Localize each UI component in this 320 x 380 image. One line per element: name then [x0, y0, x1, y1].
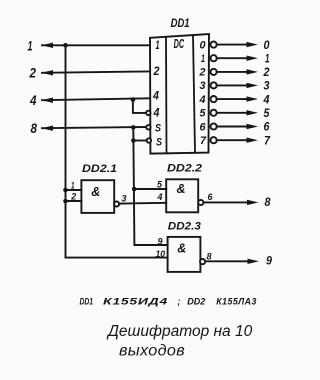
- svg-text:6: 6: [200, 121, 207, 133]
- wire output 7: [217, 139, 249, 141]
- svg-text:4: 4: [199, 94, 206, 106]
- svg-text:;: ;: [178, 296, 181, 306]
- wire vertical from input 1 down to DD2.1 and DD2.3 pin 10: [66, 45, 168, 257]
- svg-text:5: 5: [157, 179, 163, 190]
- svg-text:1: 1: [201, 53, 205, 65]
- svg-text:4: 4: [29, 93, 37, 108]
- svg-text:1: 1: [156, 40, 160, 52]
- svg-text:Дешифратор на 10: Дешифратор на 10: [106, 323, 253, 340]
- svg-text:3: 3: [264, 79, 270, 93]
- svg-text:7: 7: [264, 133, 271, 147]
- svg-text:9: 9: [158, 236, 164, 247]
- svg-text:7: 7: [200, 135, 207, 147]
- svg-text:1: 1: [28, 39, 33, 54]
- svg-text:10: 10: [156, 249, 166, 260]
- wire input row 2 (left arrow to DD1 pin 2): [42, 71, 150, 72]
- svg-text:2: 2: [29, 66, 37, 81]
- wire output 3: [217, 84, 249, 86]
- DD1 output 2 bubble: [211, 69, 217, 75]
- gate DD2.2 box: [166, 179, 198, 212]
- wire output 2: [217, 71, 249, 73]
- svg-text:1: 1: [265, 51, 270, 65]
- gate DD2.3 output bubble: [200, 259, 205, 264]
- input arrow 2: [42, 70, 54, 75]
- gate DD2.2 output bubble: [198, 200, 203, 205]
- DD1 output 1 bubble: [211, 55, 217, 61]
- svg-text:&: &: [91, 185, 100, 199]
- DD1 output 7 bubble: [211, 137, 217, 143]
- junction node vertical A / DD2.2 pin5: [132, 187, 137, 192]
- svg-text:DD2.1: DD2.1: [82, 163, 117, 175]
- svg-text:S: S: [156, 136, 163, 148]
- junction node DD2.1 pin2 / vertical: [63, 199, 68, 204]
- output arrow 3: [247, 83, 259, 88]
- svg-text:DD2.2: DD2.2: [167, 163, 202, 175]
- svg-text:S: S: [155, 123, 162, 135]
- svg-text:3: 3: [122, 194, 128, 205]
- wire output 5: [217, 112, 249, 114]
- svg-text:DD2: DD2: [187, 296, 205, 306]
- svg-text:6: 6: [264, 120, 270, 134]
- svg-text:5: 5: [264, 106, 270, 120]
- input arrow 4: [42, 98, 54, 103]
- junction node vertical A / second S elbow: [131, 138, 136, 143]
- output arrow 7: [247, 138, 259, 143]
- gate DD2.1 pin 2 wire: [66, 200, 82, 202]
- wire vertical A input 8 to DD2.2 pin 5 and DD2.3 pin 9: [133, 127, 167, 245]
- input arrow 1: [42, 43, 54, 48]
- DD1 inverted input pin 4 bubble: [146, 111, 150, 115]
- junction node at input8 / vertical A: [131, 125, 136, 130]
- svg-text:4: 4: [152, 91, 159, 103]
- junction node at input1 / vertical: [63, 43, 68, 48]
- DD1 output 3 bubble: [211, 82, 217, 88]
- svg-text:К155ИД4: К155ИД4: [103, 296, 168, 306]
- svg-text:DD1: DD1: [80, 296, 94, 306]
- gate DD2.1 pin 1 wire: [66, 189, 82, 191]
- svg-text:DD1: DD1: [171, 18, 190, 30]
- svg-text:4: 4: [157, 192, 164, 203]
- svg-text:2: 2: [199, 67, 206, 79]
- svg-text:9: 9: [266, 253, 272, 267]
- svg-text:DC: DC: [174, 37, 185, 51]
- wire input row 4 (left arrow to DD1 pin 4): [42, 98, 150, 100]
- wire output 1: [217, 57, 249, 59]
- wire DD2.3 output 8 to arrow 9: [205, 260, 250, 262]
- svg-text:0: 0: [264, 38, 270, 52]
- wire output 0: [217, 44, 249, 46]
- svg-text:6: 6: [208, 192, 214, 203]
- wire DD2.2 pin 5 branch: [134, 188, 166, 190]
- svg-text:3: 3: [200, 80, 206, 92]
- wire DD2.2 output 6 to arrow 8: [203, 201, 249, 203]
- wire elbow input4 to DD1 inverted pin 4: [133, 100, 146, 113]
- svg-text:8: 8: [31, 121, 38, 136]
- gate DD2.3 box: [168, 237, 201, 272]
- output arrow 2: [247, 69, 259, 74]
- svg-text:выходов: выходов: [119, 343, 185, 360]
- svg-text:8: 8: [265, 195, 271, 209]
- svg-text:2: 2: [263, 65, 270, 79]
- DD1 inverted input pin S bubble: [146, 125, 150, 129]
- wire output 6: [217, 126, 249, 128]
- wire input row 1 (left arrow to DD1 pin 1): [42, 44, 150, 46]
- svg-text:1: 1: [71, 181, 75, 192]
- svg-text:8: 8: [207, 252, 213, 263]
- junction node DD2.1 pin1 / vertical: [63, 188, 68, 193]
- output arrow 8: [247, 200, 259, 205]
- wire elbow input8 to DD1 second S pin: [133, 140, 146, 142]
- svg-text:DD2.3: DD2.3: [168, 221, 201, 233]
- output arrow 0: [247, 42, 259, 47]
- svg-text:5: 5: [200, 108, 207, 120]
- op block DD1 outline: [150, 34, 209, 154]
- svg-text:2: 2: [70, 192, 77, 203]
- svg-text:4: 4: [153, 108, 160, 120]
- gate DD2.1 box: [81, 180, 114, 213]
- output arrow 9: [248, 259, 260, 264]
- DD1 divider right column: [193, 35, 195, 153]
- output arrow 1: [247, 56, 259, 61]
- gate DD2.1 output bubble: [114, 202, 119, 207]
- wire DD2.1 output to DD2.2 pin 4: [119, 202, 166, 205]
- wire input row 8 (left arrow to DD1 pin S): [42, 127, 146, 128]
- DD1 inverted input pin S2 bubble: [147, 138, 151, 142]
- output arrow 4: [247, 96, 259, 101]
- output arrow 6: [247, 124, 259, 129]
- DD1 output 0 bubble: [211, 42, 217, 48]
- DD1 output 6 bubble: [211, 123, 217, 129]
- wire output 4: [217, 98, 249, 100]
- svg-text:&: &: [177, 242, 186, 256]
- svg-text:&: &: [177, 182, 186, 196]
- DD1 divider left column: [165, 37, 168, 153]
- output arrow 5: [247, 110, 259, 115]
- svg-text:0: 0: [200, 39, 207, 51]
- input arrow 8: [42, 126, 54, 131]
- svg-text:К155ЛА3: К155ЛА3: [216, 296, 256, 306]
- svg-text:2: 2: [153, 66, 160, 78]
- DD1 output 4 bubble: [211, 96, 217, 102]
- DD1 output 5 bubble: [211, 110, 217, 116]
- svg-text:4: 4: [263, 92, 270, 106]
- junction node at input4 / elbow: [131, 97, 136, 102]
